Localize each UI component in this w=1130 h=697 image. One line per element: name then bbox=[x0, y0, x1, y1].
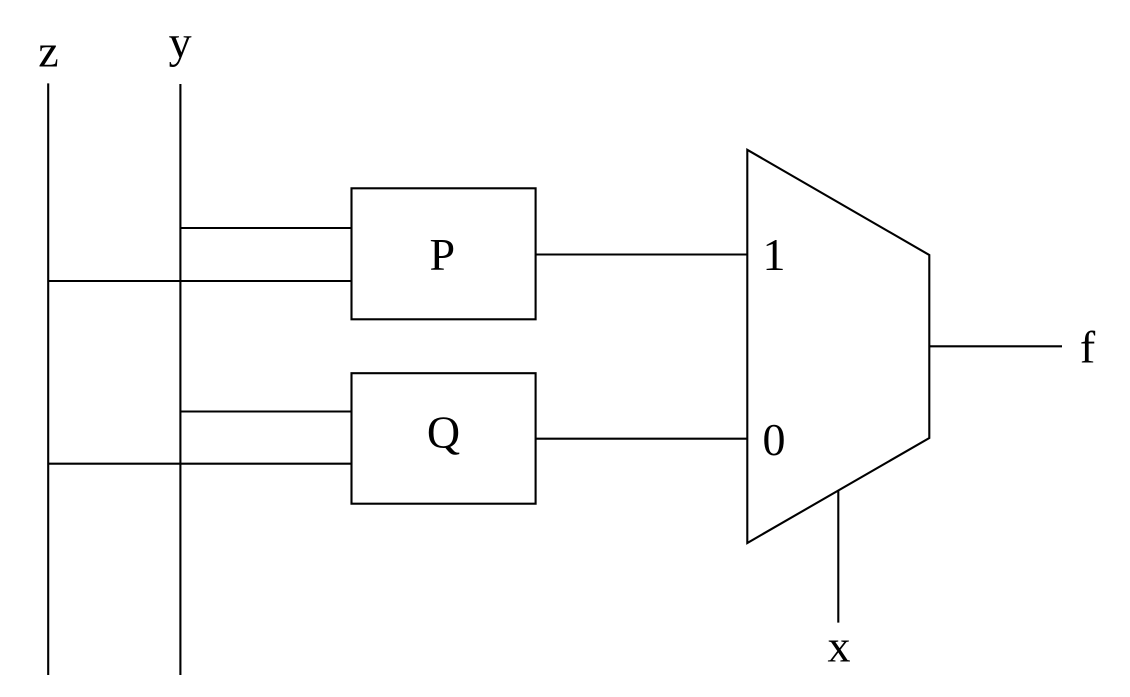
svg-text:z: z bbox=[38, 26, 58, 77]
bus line y bbox=[179, 84, 181, 675]
wire z to P (bottom input) bbox=[48, 280, 351, 282]
svg-text:Q: Q bbox=[427, 407, 460, 458]
wire P output to mux input 1 bbox=[536, 253, 748, 255]
svg-text:P: P bbox=[430, 229, 456, 280]
bus line z bbox=[47, 83, 49, 675]
multiplexer U1 bbox=[747, 150, 929, 543]
svg-text:y: y bbox=[169, 17, 192, 68]
wire y to Q (top input) bbox=[180, 410, 351, 412]
block P bbox=[352, 188, 536, 319]
wire select x bbox=[837, 491, 839, 623]
block Q bbox=[352, 373, 536, 504]
svg-text:f: f bbox=[1080, 322, 1096, 373]
wire y to P (top input) bbox=[180, 227, 351, 229]
wire z to Q (bottom input) bbox=[48, 463, 351, 465]
svg-text:0: 0 bbox=[763, 414, 786, 465]
svg-text:x: x bbox=[828, 620, 851, 671]
wire Q output to mux input 0 bbox=[536, 438, 748, 440]
wire mux output f bbox=[929, 345, 1062, 347]
svg-text:1: 1 bbox=[763, 229, 786, 280]
